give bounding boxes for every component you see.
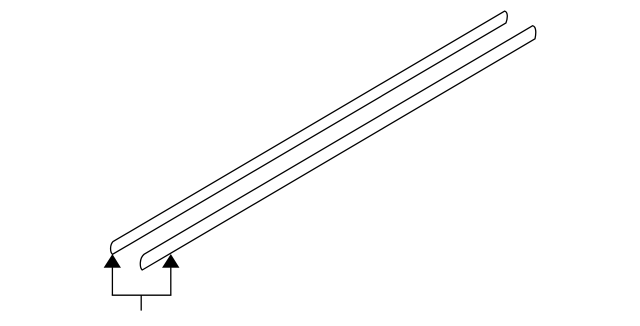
wire: source stem (center lead going down from feed bar): [140, 295, 142, 310]
arrowhead right (feed arrow to rod 2): [163, 255, 179, 268]
arrowhead left (feed arrow to rod 1): [104, 255, 120, 268]
wire: right feed lead (vertical): [170, 267, 172, 295]
wire: bottom feed bar (horizontal): [112, 294, 172, 296]
wire: left feed lead (vertical): [111, 267, 113, 295]
conductor rod 1 (upper-left conductor of two-wire line): [111, 11, 508, 254]
conductor rod 2 (lower-right conductor of two-wire line): [140, 26, 535, 270]
